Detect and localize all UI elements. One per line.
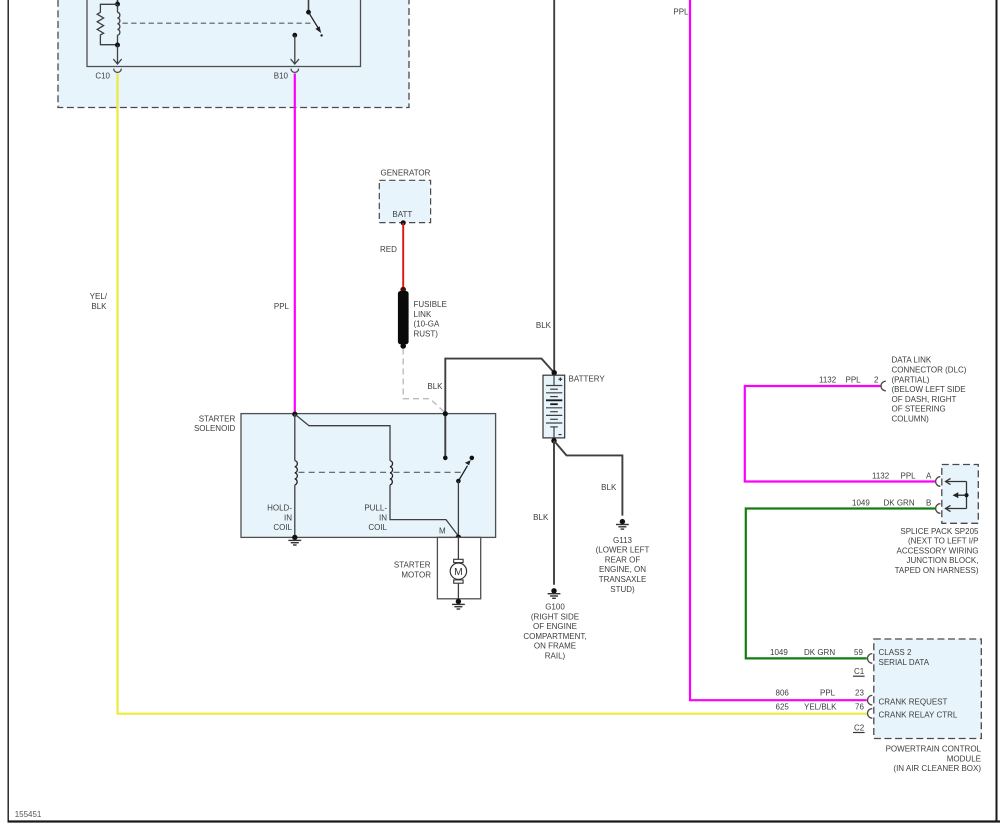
svg-text:PPL: PPL xyxy=(820,689,836,698)
data link connector caption xyxy=(892,356,967,424)
svg-text:C1: C1 xyxy=(854,667,865,676)
svg-text:DATA LINK: DATA LINK xyxy=(892,356,932,365)
svg-text:G113: G113 xyxy=(613,536,633,545)
svg-text:BATTERY: BATTERY xyxy=(569,374,606,383)
wire PPL 806 (crank request, top to PCM 23) xyxy=(673,0,866,700)
svg-text:(NEXT TO LEFT I/P: (NEXT TO LEFT I/P xyxy=(908,537,979,546)
svg-text:PPL: PPL xyxy=(673,8,689,17)
svg-text:SOLENOID: SOLENOID xyxy=(194,424,236,433)
svg-text:TAPED ON HARNESS): TAPED ON HARNESS) xyxy=(895,566,979,575)
svg-text:CLASS 2: CLASS 2 xyxy=(879,648,912,657)
splice pack SP205 xyxy=(895,465,979,576)
svg-text:BLK: BLK xyxy=(533,513,549,522)
wire BLK (battery + up to top of page) xyxy=(536,0,554,373)
wire PPL 1132 (DLC to splice pack) xyxy=(745,376,936,482)
svg-text:IN: IN xyxy=(284,513,292,522)
svg-text:(RIGHT SIDE: (RIGHT SIDE xyxy=(531,612,579,621)
PCM pin 23 connector xyxy=(868,695,873,705)
svg-text:23: 23 xyxy=(855,689,864,698)
PCM pin 59 connector xyxy=(867,654,872,664)
svg-text:76: 76 xyxy=(855,703,864,712)
svg-text:COMPARTMENT,: COMPARTMENT, xyxy=(523,632,586,641)
wire BLK (battery - to G113) xyxy=(554,441,622,516)
svg-text:POWERTRAIN CONTROL: POWERTRAIN CONTROL xyxy=(886,745,982,754)
ground (hold-in coil) xyxy=(288,535,301,545)
svg-text:PPL: PPL xyxy=(846,376,862,385)
svg-text:RUST): RUST) xyxy=(414,329,439,338)
wire PPL (B10 to starter solenoid) xyxy=(274,74,295,415)
svg-text:1132: 1132 xyxy=(819,376,837,385)
svg-text:RED: RED xyxy=(380,245,397,254)
svg-text:(BELOW LEFT SIDE: (BELOW LEFT SIDE xyxy=(892,385,966,394)
svg-text:(PARTIAL): (PARTIAL) xyxy=(892,375,930,384)
svg-text:155451: 155451 xyxy=(15,810,42,819)
svg-text:GENERATOR: GENERATOR xyxy=(381,168,431,177)
svg-text:PPL: PPL xyxy=(901,472,917,481)
ground G113 xyxy=(596,519,650,594)
svg-text:BLK: BLK xyxy=(536,321,552,330)
node M terminal xyxy=(456,535,462,541)
svg-text:YEL/BLK: YEL/BLK xyxy=(804,703,837,712)
svg-text:REAR OF: REAR OF xyxy=(605,555,641,564)
starter solenoid box xyxy=(194,414,496,538)
svg-text:PULL-: PULL- xyxy=(364,504,387,513)
svg-text:TRANSAXLE: TRANSAXLE xyxy=(599,575,647,584)
svg-text:G100: G100 xyxy=(545,603,565,612)
svg-text:CRANK RELAY CTRL: CRANK RELAY CTRL xyxy=(879,711,958,720)
pull-in coil xyxy=(295,414,459,536)
svg-text:(IN AIR CLEANER BOX): (IN AIR CLEANER BOX) xyxy=(893,764,981,773)
svg-text:A: A xyxy=(926,472,932,481)
svg-text:C10: C10 xyxy=(95,72,110,81)
relay coil-to-switch dashed actuation line xyxy=(123,22,312,24)
svg-text:FUSIBLE: FUSIBLE xyxy=(414,300,447,309)
svg-text:B: B xyxy=(926,499,931,508)
svg-text:PPL: PPL xyxy=(274,302,290,311)
svg-text:(10-GA: (10-GA xyxy=(414,320,440,329)
svg-text:OF DASH, RIGHT: OF DASH, RIGHT xyxy=(892,395,957,404)
svg-text:HOLD-: HOLD- xyxy=(267,504,292,513)
svg-text:ACCESSORY WIRING: ACCESSORY WIRING xyxy=(897,546,979,555)
svg-text:1049: 1049 xyxy=(770,648,788,657)
relay pin B10 contact and arrow xyxy=(274,33,299,81)
ground G100 xyxy=(523,588,586,660)
relay inner box xyxy=(87,0,361,67)
svg-text:ON FRAME: ON FRAME xyxy=(534,642,576,651)
fusible link (10-GA RUST) xyxy=(398,287,447,349)
svg-text:BATT: BATT xyxy=(392,210,412,219)
PCM pin 76 connector xyxy=(867,709,872,719)
svg-text:M: M xyxy=(454,567,463,578)
svg-text:806: 806 xyxy=(776,689,790,698)
svg-text:C2: C2 xyxy=(854,723,865,732)
generator (partial) xyxy=(379,168,430,225)
starter motor xyxy=(394,537,481,598)
wire BLK (battery - to G100) xyxy=(533,441,554,585)
svg-text:YEL/: YEL/ xyxy=(90,292,108,301)
svg-text:STARTER: STARTER xyxy=(199,414,236,423)
PCM pin labels 806 PPL 23 / 625 YEL/BLK 76 xyxy=(776,689,865,712)
svg-text:MODULE: MODULE xyxy=(947,754,981,763)
wire BLK (solenoid B terminal to battery +) xyxy=(427,359,554,458)
svg-text:STUD): STUD) xyxy=(610,585,635,594)
svg-text:COLUMN): COLUMN) xyxy=(892,415,930,424)
svg-text:IN: IN xyxy=(379,513,387,522)
ground (starter motor) xyxy=(452,599,465,609)
svg-text:59: 59 xyxy=(854,648,863,657)
svg-text:BLK: BLK xyxy=(601,483,617,492)
battery xyxy=(543,370,605,443)
relay switch xyxy=(306,0,323,37)
svg-text:(LOWER LEFT: (LOWER LEFT xyxy=(596,546,650,555)
wire DK GRN 1049 (splice pack to PCM 59) xyxy=(746,499,936,659)
svg-text:MOTOR: MOTOR xyxy=(401,570,431,579)
svg-text:LINK: LINK xyxy=(414,310,432,319)
svg-text:CONNECTOR (DLC): CONNECTOR (DLC) xyxy=(892,366,967,375)
dashed gray wire (fusible link to solenoid feed) xyxy=(403,349,445,413)
svg-text:ENGINE, ON: ENGINE, ON xyxy=(599,565,646,574)
svg-text:BLK: BLK xyxy=(427,382,443,391)
svg-text:RAIL): RAIL) xyxy=(545,652,566,661)
DLC pin 2 connector xyxy=(881,381,886,391)
relay coil (resistor + inductor in parallel) xyxy=(97,0,120,48)
svg-text:COIL: COIL xyxy=(368,523,387,532)
sheet number xyxy=(15,810,42,819)
wire RED (generator to fusible link) xyxy=(380,223,403,289)
svg-text:COIL: COIL xyxy=(273,523,292,532)
svg-text:625: 625 xyxy=(776,703,790,712)
svg-text:OF STEERING: OF STEERING xyxy=(892,405,946,414)
svg-text:B10: B10 xyxy=(274,72,289,81)
relay assembly dashed box (underhood fuse block, partial) xyxy=(58,0,409,108)
powertrain control module xyxy=(853,639,982,773)
svg-text:JUNCTION BLOCK,: JUNCTION BLOCK, xyxy=(906,556,978,565)
svg-text:DK GRN: DK GRN xyxy=(804,648,835,657)
svg-text:1049: 1049 xyxy=(852,499,870,508)
relay pin C10 arrow xyxy=(95,45,121,81)
svg-text:SERIAL DATA: SERIAL DATA xyxy=(879,658,930,667)
solenoid dashed actuation line xyxy=(299,471,462,473)
svg-text:CRANK REQUEST: CRANK REQUEST xyxy=(879,697,948,706)
hold-in coil xyxy=(267,414,297,537)
svg-text:DK GRN: DK GRN xyxy=(884,499,915,508)
solenoid switch xyxy=(439,456,474,538)
svg-text:STARTER: STARTER xyxy=(394,561,431,570)
wire YEL/BLK 625 (C10 to PCM 76) xyxy=(90,74,867,714)
svg-text:M: M xyxy=(439,526,446,535)
svg-text:2: 2 xyxy=(874,376,879,385)
svg-text:SPLICE PACK SP205: SPLICE PACK SP205 xyxy=(900,527,979,536)
node: PPL entry to solenoid xyxy=(292,412,297,417)
node: BLK entry to solenoid xyxy=(443,411,448,416)
svg-text:OF ENGINE: OF ENGINE xyxy=(533,622,577,631)
svg-text:1132: 1132 xyxy=(872,472,890,481)
svg-text:BLK: BLK xyxy=(91,302,107,311)
